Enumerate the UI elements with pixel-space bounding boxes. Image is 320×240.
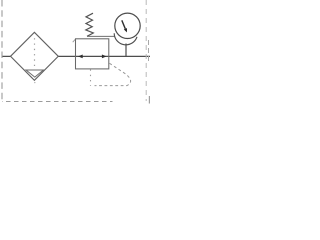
neighbor border fragment bottom-right edge [148, 96, 150, 104]
regulator R1 body [76, 39, 109, 69]
pilot drain dotted line below regulator [90, 69, 92, 86]
enclosure dashed border right [145, 0, 147, 101]
enclosure dashed border bottom [2, 101, 113, 103]
flow arrow right [102, 55, 107, 59]
gauge G1 bezel arc B [114, 33, 137, 45]
gauge G1 stem [125, 44, 127, 57]
gauge needle [122, 20, 126, 29]
flow arrow left [78, 55, 83, 59]
dashed hook pilot line [95, 63, 131, 85]
spring above regulator [86, 13, 94, 36]
filter element dotted line [34, 38, 36, 67]
gauge needle arrowhead [124, 28, 127, 32]
drain dot below filter [34, 82, 35, 83]
corner tick at regulator top-left [73, 39, 76, 42]
wire main flow line [2, 55, 150, 57]
water separator triangle [26, 70, 43, 77]
enclosure dashed border left [1, 0, 3, 102]
neighbor border fragment right middle [148, 40, 150, 64]
gauge G1 dial circle A [115, 13, 140, 38]
wire spring to gauge [87, 35, 115, 37]
filter F1 diamond body [11, 32, 59, 80]
